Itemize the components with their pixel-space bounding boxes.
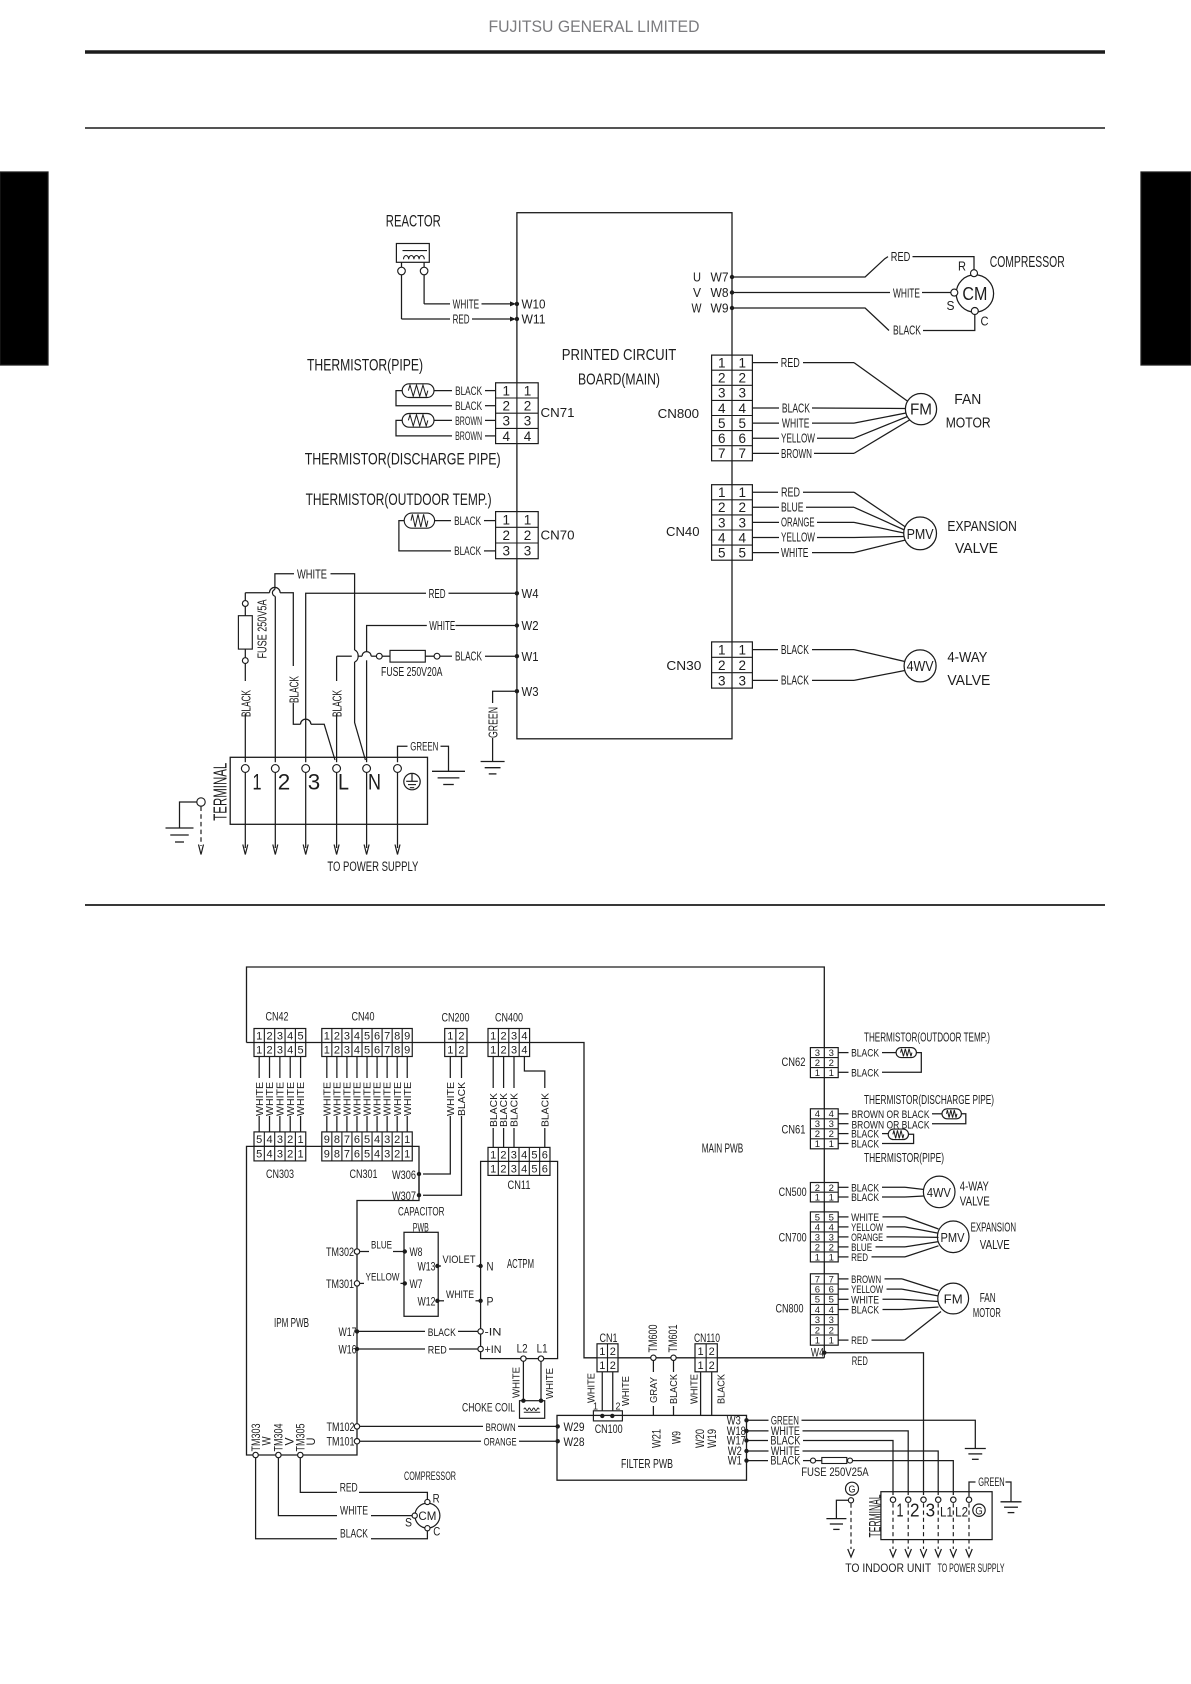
node W10 [515, 302, 519, 306]
svg-text:WHITE: WHITE [286, 1082, 297, 1116]
svg-text:9: 9 [324, 1134, 330, 1146]
svg-text:RED: RED [340, 1482, 358, 1494]
svg-text:W1: W1 [522, 650, 539, 664]
svg-text:4WV: 4WV [927, 1186, 952, 1200]
svg-text:W17: W17 [339, 1327, 357, 1339]
svg-text:WHITE: WHITE [446, 1289, 474, 1301]
svg-text:BLACK: BLACK [770, 1456, 800, 1468]
node W16 RED wire to +IN [355, 1347, 359, 1351]
connector CN400 [488, 1029, 530, 1057]
indoor unit earth circle [848, 1498, 853, 1503]
svg-text:CM: CM [962, 284, 987, 304]
svg-text:TM600: TM600 [648, 1325, 660, 1353]
svg-text:CN71: CN71 [541, 405, 575, 420]
fuse FUSE 250V25A [811, 1458, 816, 1463]
svg-text:BLACK: BLACK [455, 386, 482, 398]
svg-text:W: W [262, 1436, 274, 1445]
svg-text:TM301: TM301 [326, 1279, 354, 1291]
terminal TM601 BLACK wire W9 [671, 1355, 676, 1360]
svg-text:BLACK: BLACK [455, 401, 482, 413]
svg-text:W12: W12 [418, 1297, 436, 1309]
svg-text:WHITE: WHITE [403, 1082, 414, 1116]
svg-text:W4: W4 [522, 587, 539, 601]
svg-text:BLACK: BLACK [781, 642, 809, 657]
svg-text:BLACK: BLACK [893, 323, 921, 338]
svg-text:FM: FM [910, 402, 932, 419]
svg-text:CN200: CN200 [442, 1013, 470, 1025]
svg-text:4: 4 [738, 530, 746, 545]
ACTPM box [481, 1161, 558, 1358]
svg-text:5: 5 [364, 1030, 370, 1042]
svg-text:MAIN PWB: MAIN PWB [702, 1142, 744, 1156]
svg-text:BLACK: BLACK [851, 1139, 880, 1151]
svg-text:GREEN: GREEN [978, 1477, 1005, 1489]
svg-text:1: 1 [897, 1500, 904, 1520]
svg-text:1: 1 [718, 356, 726, 371]
svg-text:6: 6 [354, 1134, 360, 1146]
svg-text:W3: W3 [522, 685, 539, 699]
svg-text:S: S [947, 299, 955, 313]
svg-text:WHITE: WHITE [446, 1082, 457, 1116]
svg-text:RED: RED [851, 1335, 868, 1347]
svg-text:W16: W16 [339, 1344, 357, 1356]
svg-text:2: 2 [278, 770, 291, 795]
svg-text:RED: RED [852, 1356, 868, 1368]
terminal TM302 BLUE wire to W8 [354, 1249, 359, 1254]
svg-text:TM101: TM101 [327, 1437, 355, 1449]
node W7 [730, 275, 734, 279]
svg-text:BLACK: BLACK [510, 1093, 521, 1127]
svg-text:4: 4 [354, 1030, 360, 1042]
svg-text:1: 1 [256, 1044, 262, 1056]
svg-text:RED: RED [428, 1344, 447, 1356]
PCB main board outline [517, 213, 732, 739]
svg-text:6: 6 [718, 431, 726, 446]
ground (W3) [481, 761, 505, 763]
svg-text:C: C [433, 1527, 440, 1539]
wire TM304 WHITE to compressor S [278, 1458, 337, 1516]
svg-text:CHOKE COIL: CHOKE COIL [462, 1403, 515, 1415]
svg-text:5: 5 [531, 1163, 537, 1175]
node W9 [730, 306, 734, 310]
svg-text:YELLOW: YELLOW [781, 431, 815, 446]
svg-text:1: 1 [490, 1030, 496, 1042]
svg-text:FUSE 250V25A: FUSE 250V25A [801, 1465, 869, 1479]
svg-text:8: 8 [394, 1044, 400, 1056]
svg-text:CN70: CN70 [541, 528, 575, 543]
svg-text:5: 5 [256, 1149, 262, 1161]
svg-text:3: 3 [277, 1030, 283, 1042]
svg-text:6: 6 [542, 1163, 548, 1175]
svg-text:2: 2 [501, 1044, 507, 1056]
wire fuse5A top to L riser [245, 592, 269, 594]
wire reactor to W11 RED [401, 275, 403, 319]
svg-text:L1: L1 [537, 1343, 548, 1355]
wires CN42 to CN303 WHITE x5 [258, 1057, 260, 1132]
wire WHITE W2 to terminal N [455, 625, 517, 627]
svg-text:G: G [975, 1505, 983, 1517]
svg-text:WHITE: WHITE [255, 1082, 266, 1116]
svg-text:CN62: CN62 [782, 1057, 806, 1069]
svg-text:L2: L2 [955, 1504, 968, 1519]
svg-text:1: 1 [599, 1360, 605, 1372]
svg-text:L: L [338, 770, 349, 795]
wire terminal1 fuse path to terminal L [244, 714, 246, 762]
svg-text:WHITE: WHITE [429, 618, 455, 633]
wires CN700 WHITE YELLOW ORANGE BLUE RED to PMV [838, 1216, 848, 1218]
svg-text:2: 2 [738, 658, 746, 673]
wire W7 RED to compressor R [732, 257, 888, 277]
wire TM102 BROWN to W29 [354, 1424, 359, 1429]
svg-text:4: 4 [502, 429, 510, 444]
svg-text:W2: W2 [522, 619, 539, 633]
thermistor outdoor temp element [404, 513, 434, 528]
4-way valve 4WV [904, 650, 936, 682]
svg-text:8: 8 [334, 1134, 340, 1146]
svg-text:3: 3 [502, 414, 510, 429]
svg-text:2: 2 [266, 1044, 272, 1056]
svg-text:S: S [405, 1517, 412, 1529]
svg-text:1: 1 [829, 1139, 834, 1150]
thermistor pipe (bottom) [888, 1129, 908, 1140]
connector CN800 (bottom) [810, 1274, 838, 1345]
svg-text:W9: W9 [711, 302, 729, 316]
svg-text:2: 2 [394, 1149, 400, 1161]
svg-text:W19: W19 [707, 1429, 719, 1448]
svg-text:W10: W10 [522, 298, 546, 312]
svg-text:3: 3 [738, 515, 746, 530]
svg-text:7: 7 [344, 1149, 350, 1161]
svg-text:VALVE: VALVE [980, 1238, 1010, 1252]
svg-text:2: 2 [738, 371, 746, 386]
svg-text:5: 5 [298, 1030, 304, 1042]
svg-text:3: 3 [308, 770, 321, 795]
svg-text:CN1: CN1 [600, 1333, 618, 1345]
svg-text:CN11: CN11 [508, 1180, 531, 1192]
svg-text:2: 2 [500, 1149, 506, 1161]
svg-text:9: 9 [404, 1030, 410, 1042]
svg-text:6: 6 [374, 1044, 380, 1056]
svg-text:BLUE: BLUE [371, 1240, 392, 1252]
svg-text:2: 2 [709, 1346, 715, 1358]
svg-text:W4: W4 [811, 1348, 824, 1360]
node W4 (bottom) [822, 1351, 826, 1355]
wires CN1 to CN100 WHITE [601, 1372, 603, 1416]
svg-text:BOARD(MAIN): BOARD(MAIN) [578, 372, 660, 389]
wire CN400 pin4 BLACK to CN11 pin6 [524, 1057, 544, 1148]
svg-text:EXPANSION: EXPANSION [947, 519, 1017, 535]
svg-text:W28: W28 [564, 1437, 585, 1449]
svg-text:3: 3 [277, 1149, 283, 1161]
svg-text:BLACK: BLACK [540, 1093, 551, 1127]
svg-text:BLACK: BLACK [454, 546, 481, 558]
svg-text:IPM PWB: IPM PWB [274, 1316, 309, 1330]
terminal block (outdoor power) [230, 757, 427, 824]
svg-text:1: 1 [447, 1030, 453, 1042]
svg-text:6: 6 [374, 1030, 380, 1042]
connector CN301 [322, 1132, 412, 1161]
FILTER PWB outline [557, 1415, 747, 1480]
svg-text:1: 1 [490, 1149, 496, 1161]
ground (indoor earth) [826, 1518, 846, 1520]
svg-text:THERMISTOR(DISCHARGE PIPE): THERMISTOR(DISCHARGE PIPE) [864, 1093, 994, 1107]
wire TM101 ORANGE to W28 [354, 1439, 359, 1444]
svg-text:6: 6 [354, 1149, 360, 1161]
svg-text:3: 3 [511, 1030, 517, 1042]
4-way valve wires BLACK BLACK [752, 649, 778, 651]
ground (bottom right) [1001, 1501, 1022, 1503]
svg-text:3: 3 [718, 515, 726, 530]
wire W8 WHITE to compressor S [732, 292, 890, 294]
reactor symbol [396, 244, 429, 263]
svg-text:1: 1 [718, 642, 726, 657]
node W12 WHITE wire to ACTPM P [435, 1299, 439, 1303]
svg-text:BLACK: BLACK [455, 649, 482, 664]
svg-text:BLACK: BLACK [669, 1374, 680, 1404]
svg-text:6: 6 [542, 1149, 548, 1161]
svg-text:VALVE: VALVE [955, 541, 998, 557]
svg-text:1: 1 [298, 1134, 304, 1146]
svg-text:CN800: CN800 [658, 406, 700, 421]
svg-text:1: 1 [404, 1134, 410, 1146]
svg-text:YELLOW: YELLOW [366, 1272, 400, 1284]
header rule thin [85, 127, 1105, 129]
svg-text:4: 4 [374, 1134, 380, 1146]
connector CN110 [695, 1344, 717, 1372]
terminal leads to power supply [244, 772, 246, 824]
svg-text:W29: W29 [564, 1422, 585, 1434]
svg-text:3: 3 [718, 673, 726, 688]
svg-text:P: P [487, 1297, 494, 1309]
svg-text:4: 4 [524, 429, 532, 444]
right index tab [1141, 172, 1191, 365]
svg-text:2: 2 [394, 1134, 400, 1146]
svg-text:TERMINAL: TERMINAL [866, 1495, 884, 1538]
svg-text:5: 5 [531, 1149, 537, 1161]
svg-text:5: 5 [298, 1044, 304, 1056]
svg-text:5: 5 [364, 1044, 370, 1056]
svg-text:CAPACITOR: CAPACITOR [398, 1205, 445, 1219]
svg-text:GRAY: GRAY [649, 1377, 660, 1403]
thermistor outdoor (bottom) [896, 1048, 916, 1058]
terminal circles 1 2 3 L1 L2 G [890, 1497, 895, 1502]
svg-text:TM302: TM302 [326, 1247, 354, 1259]
svg-text:2: 2 [500, 1163, 506, 1175]
wire W3 GREEN to ground [493, 691, 517, 703]
svg-text:BLACK: BLACK [851, 1305, 880, 1317]
svg-text:3: 3 [738, 386, 746, 401]
svg-text:4-WAY: 4-WAY [960, 1180, 989, 1194]
svg-text:R: R [433, 1494, 440, 1506]
circled G terminal [973, 1504, 985, 1516]
fan motor FM (bottom) [938, 1283, 969, 1314]
svg-text:9: 9 [404, 1044, 410, 1056]
svg-text:WHITE: WHITE [893, 285, 920, 300]
svg-text:3: 3 [718, 386, 726, 401]
svg-text:1: 1 [256, 1030, 262, 1042]
svg-text:RED: RED [429, 586, 446, 601]
node W17 BLACK wire to -IN [355, 1329, 359, 1333]
svg-text:1: 1 [490, 1044, 496, 1056]
MAIN PWB outline [247, 967, 825, 1358]
svg-text:WHITE: WHITE [296, 1082, 307, 1116]
svg-text:BLACK: BLACK [330, 690, 345, 717]
fuse FUSE 250V5A [242, 658, 248, 664]
svg-text:3: 3 [511, 1044, 517, 1056]
svg-text:WHITE: WHITE [512, 1367, 523, 1398]
svg-text:CN110: CN110 [694, 1333, 720, 1345]
4-way valve 4WV (bottom) [923, 1176, 955, 1208]
svg-text:WHITE: WHITE [621, 1376, 632, 1406]
svg-text:7: 7 [384, 1044, 390, 1056]
node W4 [515, 591, 519, 595]
svg-text:8: 8 [394, 1030, 400, 1042]
thermistor discharge (bottom) [942, 1109, 961, 1119]
wires thermistor to CN70 pins 1,3 [435, 520, 451, 522]
svg-text:MOTOR: MOTOR [946, 416, 991, 432]
svg-text:4: 4 [521, 1044, 527, 1056]
svg-text:1: 1 [815, 1192, 820, 1203]
svg-text:W8: W8 [410, 1247, 423, 1259]
svg-text:2: 2 [334, 1044, 340, 1056]
svg-text:N: N [368, 770, 381, 795]
svg-text:CN301: CN301 [350, 1169, 378, 1181]
svg-text:4: 4 [266, 1134, 272, 1146]
wire RED terminal3 to W4 [306, 593, 426, 762]
svg-text:BLACK: BLACK [782, 400, 810, 415]
wire W9 BLACK to compressor C [732, 308, 889, 331]
svg-text:3: 3 [384, 1149, 390, 1161]
svg-text:TO POWER SUPPLY: TO POWER SUPPLY [938, 1563, 1005, 1575]
svg-text:W7: W7 [711, 271, 729, 285]
wire CN200 pin2 BLACK to W307 [423, 1057, 462, 1196]
svg-text:4: 4 [718, 401, 726, 416]
filter terminals W3 W18 W17 W2 W1 [744, 1418, 748, 1422]
svg-text:L2: L2 [517, 1343, 528, 1355]
wire W18 WHITE to terminal 2 [747, 1430, 769, 1432]
node W11 [515, 317, 519, 321]
svg-text:4: 4 [521, 1030, 527, 1042]
connector CN40 (top) [712, 485, 753, 561]
svg-text:CM: CM [418, 1509, 436, 1523]
svg-text:9: 9 [324, 1149, 330, 1161]
svg-text:FAN: FAN [980, 1291, 996, 1305]
svg-text:6: 6 [738, 431, 746, 446]
terminal TM301 YELLOW wire to W7 [354, 1281, 359, 1286]
svg-text:W13: W13 [418, 1262, 436, 1274]
left earth circle with dashed lead [197, 798, 205, 806]
fuse FUSE 250V20A [485, 655, 517, 657]
ground (bottom GREEN) [965, 1448, 986, 1450]
circled G (left) [846, 1482, 859, 1495]
svg-text:R: R [958, 260, 966, 274]
connector CN700 [810, 1212, 838, 1262]
svg-text:THERMISTOR(OUTDOOR TEMP.): THERMISTOR(OUTDOOR TEMP.) [306, 490, 492, 509]
svg-text:ACTPM: ACTPM [507, 1257, 534, 1271]
wire TM303 BLACK to compressor C [256, 1458, 337, 1539]
svg-text:PRINTED CIRCUIT: PRINTED CIRCUIT [562, 347, 677, 364]
left index tab [0, 172, 48, 365]
svg-text:WHITE: WHITE [545, 1368, 556, 1399]
svg-text:BLACK: BLACK [499, 1093, 510, 1127]
svg-text:BLACK: BLACK [851, 1048, 880, 1060]
connector CN303 [254, 1132, 306, 1161]
svg-text:3: 3 [524, 414, 532, 429]
svg-text:2: 2 [458, 1030, 464, 1042]
node W306 [417, 1172, 421, 1176]
svg-text:3: 3 [511, 1149, 517, 1161]
wires L2 L1 to choke coil WHITE [522, 1361, 524, 1400]
svg-text:W: W [692, 302, 702, 316]
svg-text:1: 1 [404, 1149, 410, 1161]
section separator rule [85, 904, 1105, 906]
svg-text:BLACK: BLACK [340, 1529, 368, 1541]
svg-text:TM102: TM102 [327, 1422, 355, 1434]
wire W1 fuse to terminal L [371, 655, 376, 657]
svg-text:1: 1 [502, 512, 510, 527]
svg-text:BLACK: BLACK [851, 1192, 880, 1204]
svg-text:COMPRESSOR: COMPRESSOR [990, 254, 1065, 271]
svg-text:3: 3 [277, 1044, 283, 1056]
svg-text:RED: RED [891, 249, 911, 264]
capacitor PWB box [404, 1232, 438, 1316]
wires CN500 BLACK BLACK to 4WV [838, 1186, 848, 1188]
svg-text:WHITE: WHITE [265, 1082, 276, 1116]
connector CN61 [810, 1109, 838, 1149]
svg-text:2: 2 [738, 500, 746, 515]
wires CN800 BROWN YELLOW WHITE BLACK to FM [838, 1278, 848, 1280]
svg-text:3: 3 [277, 1134, 283, 1146]
svg-text:BLACK: BLACK [457, 1082, 468, 1116]
svg-text:4: 4 [266, 1149, 272, 1161]
svg-text:1: 1 [738, 356, 746, 371]
terminal dashed leads [892, 1503, 894, 1549]
svg-text:1: 1 [502, 383, 510, 398]
svg-text:REACTOR: REACTOR [386, 212, 441, 231]
svg-text:2: 2 [718, 658, 726, 673]
fan motor FM [905, 394, 936, 425]
expansion valve PMV (bottom) [937, 1221, 969, 1253]
wire W3 GREEN to ground [747, 1419, 769, 1421]
svg-text:7: 7 [738, 446, 746, 461]
svg-text:1: 1 [698, 1346, 704, 1358]
fan motor wires RED BLACK WHITE YELLOW BROWN [752, 362, 778, 364]
svg-text:2: 2 [334, 1030, 340, 1042]
svg-text:BLACK: BLACK [717, 1374, 728, 1404]
svg-text:1: 1 [815, 1139, 820, 1150]
svg-text:4: 4 [521, 1163, 527, 1175]
svg-text:2: 2 [502, 398, 510, 413]
svg-text:GREEN: GREEN [485, 707, 500, 738]
svg-text:W306: W306 [392, 1170, 416, 1182]
wire W1 BLACK fuse to terminal L2 [747, 1460, 769, 1462]
ground (earth terminal) [432, 770, 465, 772]
svg-text:FAN: FAN [954, 392, 981, 408]
svg-text:W307: W307 [392, 1191, 416, 1203]
svg-text:V: V [693, 286, 702, 300]
connector CN71 [496, 383, 539, 444]
svg-text:1: 1 [738, 642, 746, 657]
svg-text:RED: RED [781, 484, 800, 499]
svg-text:VALVE: VALVE [947, 673, 990, 689]
svg-text:WHITE: WHITE [782, 416, 810, 431]
svg-text:CN800: CN800 [776, 1304, 804, 1316]
compressor CM motor [956, 275, 993, 312]
svg-text:CN303: CN303 [266, 1169, 294, 1181]
svg-text:BLACK: BLACK [428, 1327, 457, 1339]
svg-text:3: 3 [511, 1163, 517, 1175]
thermistor pipe element 2 (discharge) [402, 414, 434, 428]
